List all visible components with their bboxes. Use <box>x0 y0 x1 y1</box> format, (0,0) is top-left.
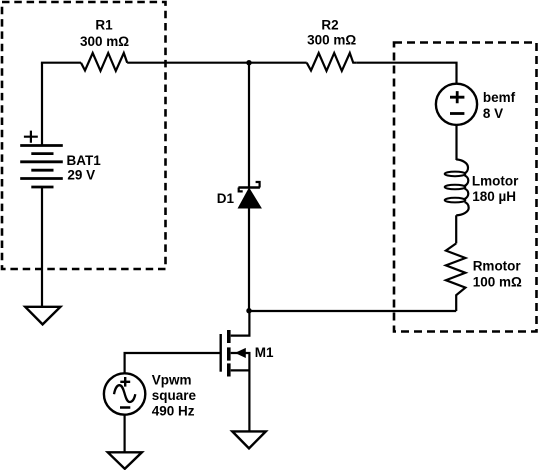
svg-text:Vpwm: Vpwm <box>152 373 192 388</box>
svg-text:300 mΩ: 300 mΩ <box>80 34 129 49</box>
wire bottom horizontal to node <box>249 310 456 312</box>
inductor Lmotor <box>445 159 469 215</box>
svg-text:100 mΩ: 100 mΩ <box>473 274 522 289</box>
wire top horizontal to R1 <box>41 62 81 64</box>
wire Lmotor to Rmotor <box>455 215 457 243</box>
svg-text:R1: R1 <box>95 18 113 33</box>
ground Vpwm <box>108 452 142 469</box>
wire gate to Vpwm <box>125 353 220 373</box>
bemf minus sign <box>450 112 464 115</box>
svg-text:490 Hz: 490 Hz <box>152 403 195 418</box>
node junction dot top <box>246 60 251 65</box>
svg-text:Rmotor: Rmotor <box>473 258 522 273</box>
svg-text:29 V: 29 V <box>67 168 95 183</box>
wire bemf to Lmotor <box>455 125 457 160</box>
bemf plus sign <box>450 91 464 103</box>
Vpwm sine wave <box>114 385 135 402</box>
wire diode to bottom node <box>248 208 250 311</box>
battery plus sign <box>24 131 38 143</box>
svg-text:R2: R2 <box>321 18 338 33</box>
ground battery <box>25 307 60 325</box>
wire Vpwm down <box>123 415 125 453</box>
resistor R1 <box>81 53 127 71</box>
source bemf circle <box>436 84 477 125</box>
battery BAT1 <box>20 146 63 188</box>
resistor R2 <box>307 53 357 71</box>
svg-text:square: square <box>152 388 197 403</box>
wire Rmotor down <box>455 296 457 312</box>
subcircuit dashed box battery/R1 <box>2 2 166 269</box>
Vpwm minus sign <box>120 406 130 409</box>
svg-text:D1: D1 <box>217 191 235 206</box>
node junction dot bottom <box>246 308 251 313</box>
wire R1 to R2 <box>127 62 307 64</box>
mosfet M1 <box>221 311 250 432</box>
wire battery down <box>41 187 43 307</box>
resistor Rmotor vertical <box>446 243 466 295</box>
svg-text:8 V: 8 V <box>483 106 503 121</box>
Vpwm plus sign <box>120 377 130 387</box>
subcircuit dashed box motor <box>394 43 537 332</box>
source Vpwm circle <box>104 373 145 414</box>
svg-text:180 µH: 180 µH <box>472 189 516 204</box>
wire top node to diode <box>248 63 250 188</box>
svg-text:300 mΩ: 300 mΩ <box>307 32 356 47</box>
svg-text:M1: M1 <box>255 345 274 360</box>
ground M1 <box>232 431 265 448</box>
diode D1 schottky <box>238 182 260 208</box>
svg-text:bemf: bemf <box>483 90 516 105</box>
svg-text:BAT1: BAT1 <box>67 153 102 168</box>
wire battery top vertical <box>41 63 43 146</box>
svg-text:Lmotor: Lmotor <box>472 174 519 189</box>
wire R2 to bemf <box>357 63 457 84</box>
